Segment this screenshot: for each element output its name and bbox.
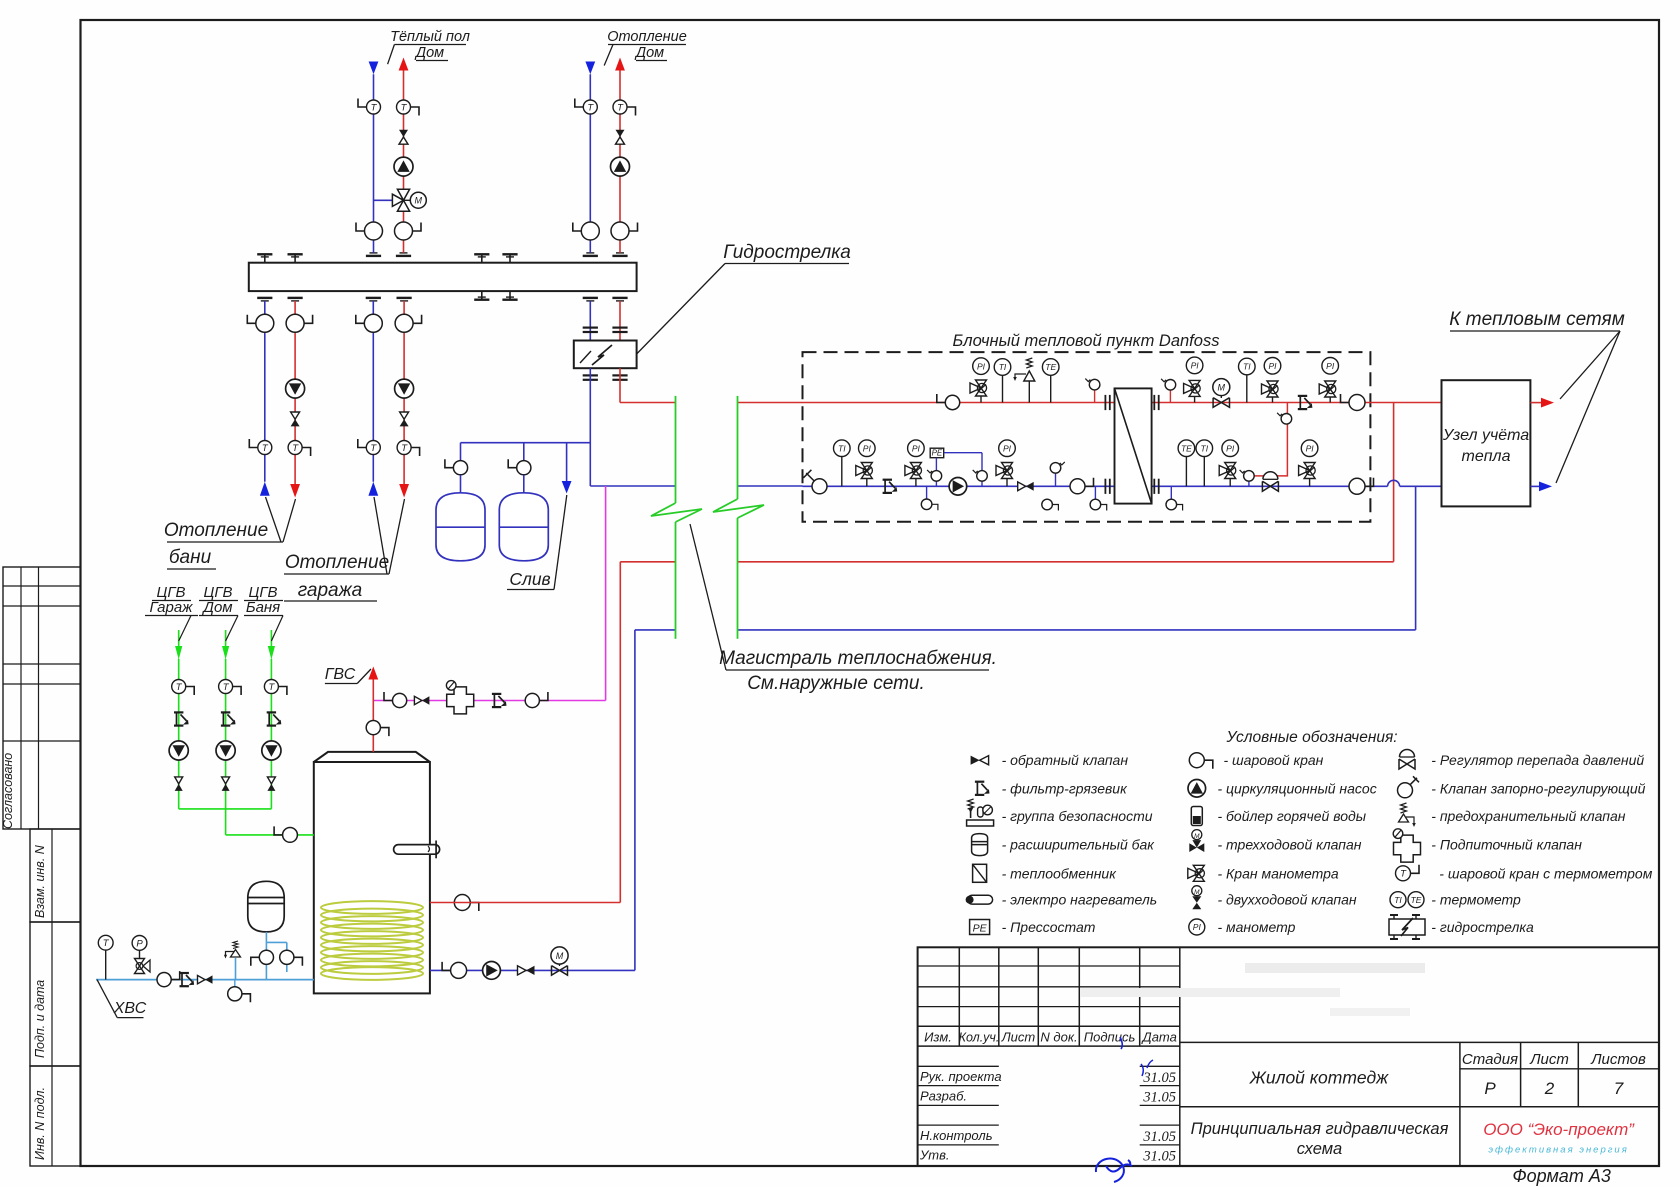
svg-text:Магистраль теплоснабжения.: Магистраль теплоснабжения. [719, 648, 997, 669]
signature pen marks [1096, 1037, 1153, 1182]
expansion tank 2 [499, 493, 548, 561]
label hydro separator [637, 242, 851, 354]
manifold bottom flange [612, 298, 627, 301]
flange hydro top blue [583, 328, 598, 332]
svg-text:- двухходовой клапан: - двухходовой клапан [1218, 892, 1357, 908]
wire boiler supply red [430, 902, 620, 904]
legend 3way text [1218, 837, 1362, 853]
wire makeup horizontal [373, 700, 605, 702]
legend 2way sym [1192, 886, 1202, 910]
thermometer heating red [613, 100, 636, 116]
svg-text:Листов: Листов [1590, 1051, 1646, 1068]
ball valve warm-floor blue [356, 222, 383, 240]
svg-text:Блочный тепловой пункт Danfoss: Блочный тепловой пункт Danfoss [953, 332, 1220, 350]
safety valve cold water [224, 941, 241, 959]
label heating house [604, 29, 687, 66]
motor valve M [1213, 379, 1230, 408]
label danfoss [953, 332, 1220, 350]
trench line right [737, 396, 739, 639]
svg-text:схема: схема [1297, 1140, 1342, 1158]
membrane tank [248, 881, 284, 932]
svg-text:тепла: тепла [1462, 448, 1511, 465]
circulation pump danfoss [949, 478, 967, 496]
heat meter box [1442, 380, 1531, 506]
arrow garage-heating red down [399, 484, 409, 498]
title block revision grid [918, 947, 1180, 1166]
svg-text:- гидрострелка: - гидрострелка [1431, 919, 1534, 935]
legend manometer cock sym [1188, 865, 1205, 881]
wire garage-heating blue [372, 301, 374, 482]
drain valve return 1 [921, 486, 938, 510]
wire danfoss blue line [803, 480, 1442, 486]
thermometer TI return 2 [1196, 440, 1213, 486]
arrow dhw up [368, 667, 378, 680]
svg-text:Согласовано: Согласовано [1, 753, 15, 829]
arrow recirc bath [268, 646, 275, 660]
svg-text:Гидрострелка: Гидрострелка [723, 242, 851, 263]
wire recirc garage [178, 630, 180, 809]
manifold spare top port [257, 254, 272, 262]
stage-sheet header [1462, 1051, 1646, 1068]
ball valve tank 2 [508, 459, 531, 475]
svg-text:TE: TE [1045, 362, 1056, 372]
valve recirc garage [175, 777, 183, 791]
thermometer TI 2 [1239, 358, 1256, 402]
thermometer garage-heating blue [358, 439, 381, 455]
svg-text:См.наружные сети.: См.наружные сети. [747, 673, 925, 694]
svg-text:PI: PI [1226, 443, 1235, 453]
legend hx sym [973, 864, 987, 882]
arrow bath-heating red down [290, 484, 300, 498]
svg-text:PI: PI [1191, 361, 1200, 371]
svg-text:Условные обозначения:: Условные обозначения: [1225, 729, 1397, 746]
legend ball-T sym [1396, 865, 1420, 881]
manifold spare top port [502, 254, 517, 262]
manifold spare bottom port [474, 292, 489, 300]
stamp table Vzam inv N [30, 829, 81, 922]
svg-text:эффективная энергия: эффективная энергия [1488, 1145, 1628, 1156]
expansion tank 1 [436, 493, 485, 561]
manometer cock return 2 [905, 463, 922, 487]
svg-text:PE: PE [973, 923, 988, 935]
drain valve hx right [1166, 486, 1183, 510]
air vent after hx [1161, 379, 1176, 403]
arrow heating blue down [585, 62, 595, 75]
legend pump text [1218, 780, 1377, 796]
wire garage-heating red [403, 301, 405, 484]
svg-text:PI: PI [977, 361, 986, 371]
stamp table Inv N podl [30, 1066, 81, 1166]
hx flange red left [1105, 395, 1109, 410]
manometer cock return 3 [996, 463, 1013, 487]
legend ball valve text [1224, 752, 1324, 768]
impulse tap valve [1240, 470, 1255, 486]
wire recirc header [179, 809, 314, 835]
company slogan [1488, 1145, 1628, 1156]
legend manometer text [1218, 919, 1296, 935]
thermometer bath-heating blue [249, 439, 271, 455]
legend ball valve sym [1189, 753, 1213, 769]
manifold top flange warm floor return [396, 253, 411, 256]
svg-text:Тёплый пол: Тёплый пол [390, 29, 470, 45]
svg-text:Жилой коттедж: Жилой коттедж [1249, 1068, 1389, 1088]
manifold top flange heating return [612, 253, 627, 256]
wire bath-heating red [294, 301, 296, 484]
gauge PI supply [973, 358, 990, 375]
pump recirc garage [169, 741, 188, 760]
svg-text:PI: PI [1326, 361, 1335, 371]
label cold water [97, 980, 147, 1018]
pump bath-heating [286, 379, 305, 398]
svg-text:TI: TI [999, 362, 1007, 372]
air vent PE stem [927, 470, 942, 481]
filter supply out [1298, 396, 1313, 409]
air vent pump outlet [973, 470, 988, 481]
svg-text:M: M [1218, 383, 1226, 393]
svg-text:31.05: 31.05 [1142, 1090, 1176, 1106]
svg-text:ООО “Эко-проект”: ООО “Эко-проект” [1483, 1120, 1635, 1139]
wire red return horizontal [620, 561, 1393, 563]
manifold spare top port [288, 254, 303, 262]
svg-text:TI: TI [838, 443, 846, 453]
manifold bottom flange [397, 298, 412, 301]
label warm floor [388, 29, 470, 64]
svg-text:Отопление: Отопление [164, 520, 268, 541]
label to heat networks [1449, 309, 1624, 483]
svg-text:- циркуляционный насос: - циркуляционный насос [1218, 780, 1377, 796]
wire red return down to boiler [619, 562, 621, 903]
filter recirc house [221, 712, 236, 725]
dates 31.05 [1142, 1070, 1176, 1165]
wire impulse line [1249, 403, 1288, 476]
ball valve heating blue [573, 222, 600, 240]
svg-text:Инв. N подл.: Инв. N подл. [33, 1087, 47, 1160]
svg-text:2: 2 [1544, 1079, 1555, 1098]
balancing valve heating [616, 130, 625, 144]
svg-text:- термометр: - термометр [1431, 892, 1521, 908]
legend 2way text [1218, 892, 1357, 908]
valve garage-heating [400, 412, 409, 426]
svg-text:Слив: Слив [509, 569, 550, 589]
filter return [883, 480, 898, 493]
air vent return [1050, 462, 1065, 486]
manometer cock supply [970, 380, 987, 403]
svg-text:7: 7 [1614, 1079, 1624, 1098]
svg-text:- группа безопасности: - группа безопасности [1002, 808, 1153, 824]
manometer cock 3 [1262, 381, 1279, 403]
svg-text:Дом: Дом [201, 599, 232, 616]
arrow warm-floor red up [399, 58, 409, 71]
arrow warm-floor blue down [369, 62, 379, 75]
svg-text:M: M [415, 196, 423, 206]
wire blue return down to boiler [634, 630, 636, 971]
filter recirc garage [174, 712, 189, 725]
legend pump sym [1188, 780, 1206, 798]
legend exp tank sym [972, 834, 988, 856]
ball valve tank left [251, 950, 274, 966]
label bath heating [164, 497, 296, 569]
legend title [1225, 729, 1397, 746]
thermometer warm-floor blue [358, 99, 381, 115]
wire heating red riser [619, 70, 621, 253]
heat exchanger [1115, 388, 1152, 503]
svg-text:PI: PI [863, 443, 872, 453]
wire tank stems [461, 475, 524, 493]
svg-text:- предохранительный клапан: - предохранительный клапан [1431, 808, 1625, 824]
wire red return vertical right [1393, 403, 1395, 562]
svg-text:Р: Р [1484, 1079, 1496, 1098]
legend diff reg text [1431, 752, 1644, 768]
manifold top flange warm floor supply [366, 253, 381, 256]
wire red from hydro down [619, 368, 621, 402]
thermometer heating blue [575, 99, 598, 115]
wire recirc bath [270, 630, 272, 809]
wire to network blue [1530, 485, 1539, 487]
label garage heating [284, 497, 405, 601]
svg-text:TI: TI [1394, 895, 1402, 905]
svg-text:- Прессостат: - Прессостат [1002, 919, 1096, 935]
svg-text:- теплообменник: - теплообменник [1002, 865, 1118, 881]
ball valve makeup 1 [384, 692, 407, 708]
svg-text:31.05: 31.05 [1142, 1129, 1176, 1145]
svg-text:- шаровой кран с термометром: - шаровой кран с термометром [1439, 865, 1652, 881]
legend hx text [1002, 865, 1118, 881]
ball valve makeup 2 [525, 692, 548, 708]
wire boiler return blue [430, 969, 635, 971]
pump boiler return [483, 962, 501, 980]
legend manometer sym [1189, 919, 1205, 935]
stage-sheet values [1484, 1079, 1623, 1098]
svg-text:ГВС: ГВС [325, 666, 356, 683]
legend check valve sym [971, 756, 989, 765]
stamp table Podp i data [30, 922, 81, 1066]
pump heating [611, 157, 630, 176]
break mark right [713, 499, 764, 518]
pressure reducer cold water [135, 959, 151, 974]
svg-text:Гараж: Гараж [149, 599, 193, 616]
svg-text:- расширительный бак: - расширительный бак [1002, 837, 1156, 853]
thermometer garage-heating red [397, 441, 420, 457]
svg-text:- Клапан запорно-регулирующий: - Клапан запорно-регулирующий [1431, 780, 1645, 796]
gauge PI return 5 [1301, 440, 1318, 457]
svg-text:M: M [556, 951, 564, 961]
ball valve boiler return [442, 962, 467, 979]
svg-text:TI: TI [1243, 362, 1251, 372]
motor valve boiler return [551, 947, 568, 975]
hx flange red right [1154, 395, 1158, 410]
ball valve bath-heating red [286, 314, 313, 332]
legend safety group text [1002, 808, 1153, 824]
svg-text:гаража: гаража [298, 580, 363, 601]
gauge PI return 1 [859, 440, 876, 457]
legend filter text [1002, 780, 1128, 796]
gauge PI 2 [1186, 357, 1203, 374]
svg-text:Отопление: Отопление [285, 552, 389, 573]
thermometer TI return [834, 440, 851, 486]
hydro separator body [574, 341, 637, 369]
electric heater [394, 841, 440, 859]
wire recirc house [225, 630, 227, 809]
wire bath-heating blue [264, 301, 266, 482]
legend control valve text [1431, 780, 1645, 796]
legend safety group sym [967, 799, 994, 826]
check valve makeup [414, 696, 429, 704]
legend safety valve text [1431, 808, 1625, 824]
legend pressostat text [1002, 919, 1096, 935]
valve recirc house [222, 777, 230, 791]
gauge PI return 4 [1222, 440, 1239, 457]
heat meter label [1442, 427, 1529, 465]
legend 3way sym [1189, 830, 1204, 852]
wire blue from hydro down [589, 368, 591, 486]
wire blue supply to danfoss [590, 485, 802, 487]
ball valve recirc [274, 826, 297, 842]
thermometer recirc garage [172, 680, 195, 696]
ball valve warm-floor red [395, 222, 422, 240]
arrow recirc garage [175, 646, 182, 660]
legend thermometer sym [1390, 892, 1424, 908]
svg-text:P: P [136, 938, 143, 949]
pressure switch PE [930, 448, 982, 486]
break mark left [651, 503, 702, 522]
svg-text:31.05: 31.05 [1142, 1149, 1176, 1165]
label cgv garage [145, 584, 198, 641]
revision header texts [924, 1030, 1177, 1045]
legend heater sym [966, 895, 993, 904]
legend heater text [1002, 892, 1158, 908]
legend boiler text [1218, 808, 1367, 824]
wire dhw red [372, 679, 374, 752]
arrow drain down [562, 481, 572, 494]
danfoss dashed box [803, 352, 1371, 522]
svg-text:Отопление: Отопление [607, 29, 687, 45]
pump garage-heating [395, 379, 414, 398]
svg-text:- обратный клапан: - обратный клапан [1002, 752, 1129, 768]
svg-text:M: M [1194, 833, 1200, 840]
title block signature rows [919, 1069, 1002, 1163]
valve bath-heating [291, 412, 300, 426]
filter recirc bath [267, 712, 282, 725]
pump recirc house [216, 741, 235, 760]
svg-text:M: M [1194, 889, 1200, 896]
boiler heating coil [321, 901, 423, 980]
arrow garage-heating blue up [368, 482, 378, 496]
manifold top flange heating supply [583, 253, 598, 256]
drain valve cold water [228, 980, 251, 1003]
thermometer bath-heating red [288, 441, 311, 457]
wire hydro blue drop [589, 301, 591, 341]
boiler body [314, 752, 430, 994]
motor actuator M warm-floor [410, 192, 426, 208]
legend exp tank text [1002, 837, 1156, 853]
3-way mixing valve warm-floor [392, 189, 410, 211]
svg-text:TE: TE [1181, 443, 1192, 453]
gauge PI return 3 [999, 440, 1016, 457]
flange hydro top red [612, 328, 627, 332]
format label [1512, 1166, 1611, 1186]
svg-text:Баня: Баня [246, 599, 280, 616]
wire cold water main [96, 979, 314, 981]
legend diff reg sym [1399, 750, 1415, 769]
stamp table Soglasovano [1, 567, 81, 829]
impulse valve [1277, 413, 1292, 424]
check valve cold water [198, 975, 213, 983]
project name [1249, 1068, 1389, 1088]
svg-text:PI: PI [1268, 361, 1277, 371]
svg-text:Лист: Лист [1001, 1030, 1036, 1045]
svg-text:Подп. и дата: Подп. и дата [33, 980, 47, 1058]
gauge PI 4 [1322, 358, 1339, 375]
wire tank connection [266, 932, 286, 980]
ball valve garage-heating red [395, 314, 422, 332]
legend safety valve sym [1399, 803, 1416, 827]
wire red supply to danfoss [620, 402, 803, 404]
sensor TE return [1178, 440, 1195, 486]
company name [1483, 1120, 1635, 1139]
label cgv house [199, 584, 238, 641]
legend boiler sym [1191, 807, 1202, 826]
svg-text:Дом: Дом [634, 45, 664, 61]
gauge PI 3 [1264, 358, 1281, 375]
svg-text:- Регулятор перепада давлений: - Регулятор перепада давлений [1431, 752, 1644, 768]
wire blue return vertical right [1415, 486, 1417, 630]
svg-text:Подпись: Подпись [1084, 1030, 1136, 1045]
gauge P cold water [132, 936, 147, 959]
valve recirc bath [267, 777, 275, 791]
svg-text:Формат А3: Формат А3 [1512, 1166, 1611, 1186]
legend thermometer text [1431, 892, 1521, 908]
legend pressostat sym [970, 920, 990, 935]
wire warm-floor red riser [403, 70, 405, 253]
svg-text:- трехходовой клапан: - трехходовой клапан [1218, 837, 1362, 853]
wire warm-floor blue riser [374, 74, 393, 253]
wire heating blue riser [589, 74, 591, 253]
legend hydro sym [1389, 915, 1425, 939]
air vent supply [1085, 379, 1100, 403]
balancing valve warm-floor [399, 130, 408, 144]
thermometer warm-floor red [397, 100, 420, 116]
ball valve dhw [366, 721, 389, 737]
manifold bottom flange [366, 298, 381, 301]
wire danfoss red line [803, 402, 1442, 404]
wire to network red [1530, 402, 1541, 404]
svg-text:PI: PI [912, 443, 921, 453]
arrow recirc house [222, 646, 229, 660]
ball valve tank right [280, 950, 303, 966]
drain valve hx left [1090, 486, 1107, 510]
makeup valve cross [446, 681, 473, 714]
svg-text:TE: TE [1411, 895, 1422, 905]
pump warm-floor [394, 157, 413, 176]
svg-text:Дата: Дата [1141, 1030, 1177, 1045]
erased stamp marks [1080, 963, 1425, 1016]
svg-text:Дом: Дом [414, 45, 444, 61]
svg-text:Взам. инв. N: Взам. инв. N [33, 844, 47, 918]
title block right grid [1180, 1042, 1659, 1166]
filter cold water [180, 973, 195, 986]
svg-text:- Подпиточный клапан: - Подпиточный клапан [1431, 837, 1582, 853]
manifold bottom flange [288, 298, 303, 301]
legend control valve sym [1398, 776, 1420, 798]
svg-text:- манометр: - манометр [1218, 919, 1296, 935]
ball valve return out [803, 470, 827, 494]
arrow to network red [1541, 398, 1554, 408]
svg-text:PE: PE [932, 449, 943, 458]
wire safety stem [235, 958, 237, 980]
hx flange blue left [1105, 479, 1109, 494]
legend check valve text [1002, 752, 1129, 768]
svg-text:N док.: N док. [1040, 1030, 1077, 1045]
